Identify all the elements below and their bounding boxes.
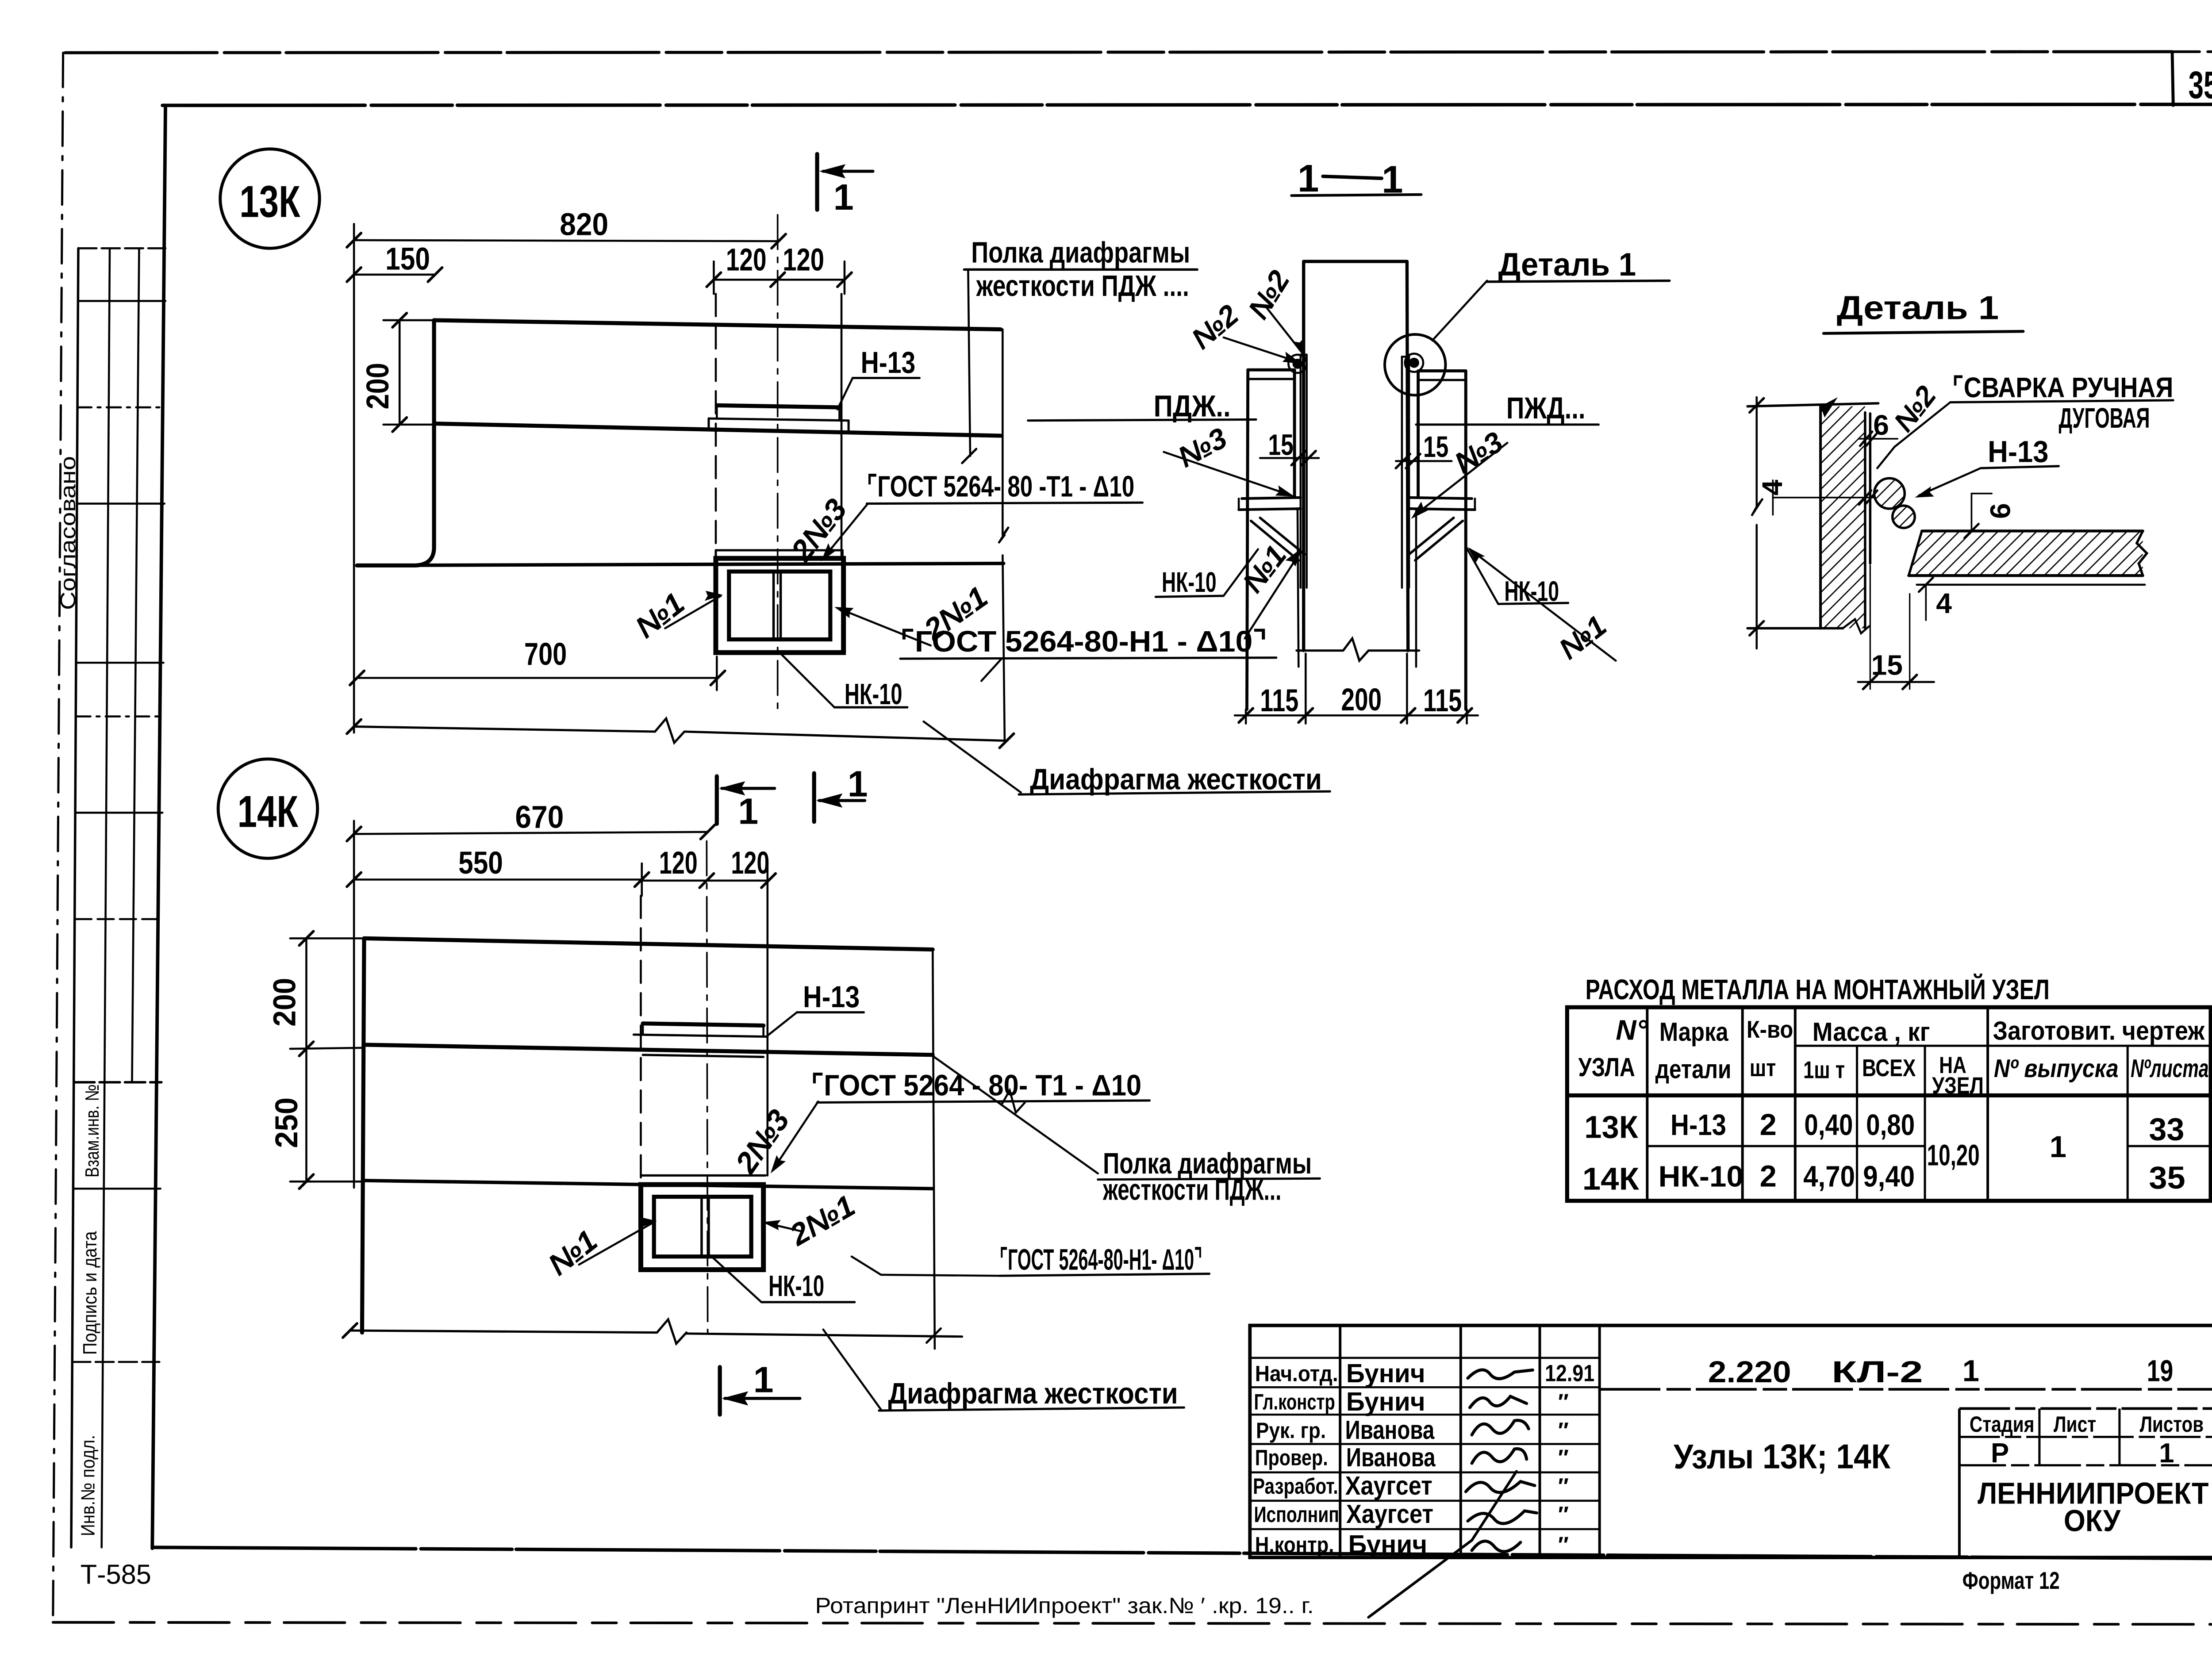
Detail 1 title underline bbox=[1824, 331, 2023, 334]
14K left dimension extension line bbox=[353, 821, 354, 1188]
13K edge line x=830 bbox=[841, 294, 842, 559]
13K balloon circle bbox=[220, 149, 320, 249]
svg-text:700: 700 bbox=[524, 637, 567, 672]
13K bottom section mark A bar bbox=[716, 776, 718, 824]
title block vertical: name col bbox=[1460, 1326, 1462, 1558]
svg-text:15: 15 bbox=[1268, 429, 1294, 462]
svg-text:Иванова: Иванова bbox=[1345, 1415, 1435, 1445]
detail dim 4 left bbox=[1773, 497, 1873, 498]
14K leader 2N3 bbox=[772, 1101, 818, 1170]
13K top beam line bbox=[434, 320, 1001, 330]
svg-text:0,40: 0,40 bbox=[1804, 1109, 1853, 1142]
14K NK-10 underline and leader bbox=[761, 1302, 855, 1303]
inner frame bottom bbox=[152, 1547, 2212, 1558]
svg-text:120: 120 bbox=[731, 846, 769, 881]
svg-text:⌜ГОСТ 5264- 80 -Т1 - Δ10: ⌜ГОСТ 5264- 80 -Т1 - Δ10 bbox=[867, 471, 1134, 503]
13K leader to Diafragma label bbox=[924, 721, 1021, 792]
svg-text:⌜СВАРКА РУЧНАЯ: ⌜СВАРКА РУЧНАЯ bbox=[1952, 372, 2173, 403]
section weld dot right bbox=[1409, 358, 1419, 368]
14K right extension vertical bbox=[933, 950, 935, 1349]
13K dim line 150 bbox=[354, 274, 435, 275]
13K Polka label underline bbox=[964, 269, 1197, 270]
svg-text:шт: шт bbox=[1750, 1054, 1776, 1081]
svg-text:2.220: 2.220 bbox=[1708, 1355, 1791, 1389]
stadia col split 1 bbox=[2039, 1408, 2040, 1465]
13K N-13 underline and leader bbox=[853, 377, 919, 378]
svg-text:35: 35 bbox=[2189, 64, 2212, 107]
svg-text:Nº выпуска: Nº выпуска bbox=[1994, 1055, 2119, 1083]
svg-text:1ш т: 1ш т bbox=[1803, 1056, 1845, 1084]
section dim 15 left bbox=[1260, 457, 1319, 458]
svg-text:15: 15 bbox=[1871, 649, 1903, 681]
svg-text:Хаугсет: Хаугсет bbox=[1346, 1499, 1433, 1529]
svg-text:Формат 12: Формат 12 bbox=[1962, 1567, 2060, 1594]
stamp column vertical line 2 bbox=[102, 248, 110, 1547]
14K bottom section mark arrow bbox=[725, 1398, 800, 1399]
14K balloon circle bbox=[218, 759, 318, 859]
svg-text:1: 1 bbox=[738, 791, 758, 832]
svg-text:13К: 13К bbox=[1584, 1110, 1638, 1145]
svg-text:Деталь 1: Деталь 1 bbox=[1837, 290, 1999, 327]
table outer box bbox=[1567, 1007, 2211, 1201]
svarka underline and leader bbox=[1950, 400, 2173, 403]
section leader N1 left bbox=[1245, 553, 1300, 638]
section dim 15 right bbox=[1396, 460, 1452, 461]
svg-text:9,40: 9,40 bbox=[1863, 1161, 1915, 1193]
section leader N1 right bbox=[1470, 549, 1616, 661]
sheet number box for 35 bbox=[2172, 52, 2173, 105]
svg-text:Р: Р bbox=[1991, 1438, 2009, 1469]
table header bottom line bbox=[1567, 1094, 2211, 1096]
title block row lines (left part) bbox=[1250, 1358, 1599, 1358]
svg-text:УЗЕЛ: УЗЕЛ bbox=[1932, 1073, 1984, 1099]
13K Diafragma underline bbox=[1019, 791, 1330, 794]
14K H-13 bottom strap bbox=[643, 1055, 764, 1057]
svg-text:2: 2 bbox=[1760, 1108, 1777, 1142]
table verticals bbox=[1647, 1007, 1648, 1201]
section wall left edge bbox=[1303, 261, 1304, 651]
svg-text:1: 1 bbox=[1962, 1354, 1979, 1388]
svg-text:Лист: Лист bbox=[2054, 1411, 2096, 1437]
svg-text:КЛ-2: КЛ-2 bbox=[1832, 1355, 1923, 1389]
svg-text:″: ″ bbox=[1558, 1445, 1569, 1470]
PDZh underline / leader shelf bbox=[1028, 419, 1256, 420]
svg-text:Н.контр.: Н.контр. bbox=[1255, 1532, 1334, 1557]
14K dim line 550 bbox=[354, 879, 642, 880]
stamp column left edge bbox=[71, 248, 78, 1547]
svg-text:жесткости ПДЖ ....: жесткости ПДЖ .... bbox=[976, 270, 1189, 303]
svg-text:6: 6 bbox=[1984, 503, 2016, 519]
svg-text:120: 120 bbox=[659, 846, 698, 881]
detail wall hatched band bbox=[1820, 406, 1865, 629]
detail bar bottom thin line bbox=[1917, 584, 2145, 585]
14K N-13 underline and leader bbox=[797, 1012, 864, 1013]
svg-text:Н-13: Н-13 bbox=[803, 980, 860, 1014]
svg-text:ПДЖ..: ПДЖ.. bbox=[1154, 389, 1231, 423]
svg-text:Согласовано: Согласовано bbox=[56, 456, 80, 610]
13K lower panel top line bbox=[357, 564, 1004, 566]
svg-text:НК-10: НК-10 bbox=[768, 1270, 824, 1303]
signature squiggle row6 bbox=[1468, 1511, 1537, 1524]
PZhD underline / leader shelf bbox=[1416, 424, 1598, 425]
detail dim 6 top bbox=[1859, 438, 1897, 439]
svg-text:Исполнип: Исполнип bbox=[1254, 1502, 1339, 1527]
13K vertical dim 200 line bbox=[399, 320, 400, 425]
svg-text:14К: 14К bbox=[238, 787, 299, 836]
14K Polka underline bbox=[1098, 1178, 1320, 1179]
14K dim line 670 bbox=[354, 832, 708, 834]
svg-text:Взам.инв. №: Взам.инв. № bbox=[82, 1084, 103, 1177]
14K hidden edge dashed x=632 bbox=[640, 896, 641, 1177]
13K hidden edge dashed x=706 bbox=[715, 294, 716, 552]
svg-text:Диафрагма жесткости: Диафрагма жесткости bbox=[888, 1377, 1178, 1410]
svg-text:НК-10: НК-10 bbox=[1659, 1161, 1743, 1193]
section right flange plate bbox=[1410, 498, 1472, 499]
svg-text:⌜ГОСТ 5264-80-Н1- Δ10⌝: ⌜ГОСТ 5264-80-Н1- Δ10⌝ bbox=[999, 1244, 1202, 1277]
section N2 plate left bbox=[1300, 355, 1301, 588]
14K Diafragma underline bbox=[879, 1407, 1184, 1411]
svg-text:ДУГОВАЯ: ДУГОВАЯ bbox=[2058, 402, 2150, 434]
svg-text:Бунич: Бунич bbox=[1346, 1387, 1425, 1416]
detail weld blob lower bbox=[1893, 506, 1915, 528]
svg-text:Листов: Листов bbox=[2140, 1411, 2204, 1437]
section right panel top edges bbox=[1418, 370, 1466, 372]
svg-text:Полка диафрагмы: Полка диафрагмы bbox=[971, 236, 1190, 269]
svg-text:Провер.: Провер. bbox=[1255, 1445, 1328, 1470]
signature squiggle row7 bbox=[1472, 1541, 1521, 1552]
svg-text:200: 200 bbox=[1341, 683, 1382, 717]
signature squiggle row5 bbox=[1466, 1481, 1535, 1492]
svg-text:14К: 14К bbox=[1582, 1162, 1640, 1197]
13K bottom section mark B bar bbox=[813, 773, 815, 822]
14K leader to Diafragma label bbox=[823, 1330, 881, 1410]
svg-text:Ротапринт "ЛенНИИпроект" зак.№: Ротапринт "ЛенНИИпроект" зак.№ ′ .кр. 19… bbox=[815, 1593, 1314, 1618]
title block line under doc number bbox=[1600, 1389, 2212, 1390]
stamp column separator rows bbox=[78, 248, 165, 249]
svg-text:1: 1 bbox=[833, 177, 854, 218]
section mark 1 bar (top of 13K) bbox=[816, 154, 818, 210]
13K leader N1 bbox=[665, 596, 721, 628]
Detail 1 label underline bbox=[1487, 281, 1669, 282]
svg-text:Иванова: Иванова bbox=[1346, 1442, 1436, 1472]
13K H-13 lower plate bbox=[709, 418, 849, 421]
detail dim 15 bottom bbox=[1870, 565, 1870, 689]
svg-text:Узлы 13К; 14К: Узлы 13К; 14К bbox=[1674, 1437, 1891, 1476]
svg-text:150: 150 bbox=[385, 242, 430, 276]
svg-text:Бунич: Бунич bbox=[1348, 1530, 1428, 1559]
14K H-13 top plate bbox=[643, 1024, 764, 1026]
svg-text:Стадия: Стадия bbox=[1970, 1411, 2035, 1437]
14K leader to Polka label with break bbox=[933, 1056, 1098, 1173]
svg-text:НК-10: НК-10 bbox=[1162, 566, 1217, 598]
14K panel bottom line bbox=[364, 1181, 933, 1189]
14K left thick vertical bbox=[362, 938, 364, 1332]
14K NK-10 channel top plate bbox=[641, 1175, 765, 1176]
13K bottom section mark B arrow bbox=[819, 800, 865, 801]
long diagonal pen stroke across signatures bbox=[1368, 1540, 1472, 1617]
svg-text:35: 35 bbox=[2149, 1161, 2185, 1196]
inner frame top (dashed look) bbox=[162, 104, 2212, 105]
13K NK-10 channel outer box bbox=[716, 558, 844, 652]
14K centre axis (dash-dot) bbox=[707, 841, 707, 1333]
13K NK-10 channel inner box bbox=[729, 571, 830, 639]
leader to Detail 1 label bbox=[1432, 281, 1487, 341]
svg-text:детали: детали bbox=[1655, 1055, 1732, 1084]
svg-text:13К: 13К bbox=[239, 177, 300, 226]
svg-text:″: ″ bbox=[1558, 1473, 1569, 1499]
14K NK-10 channel outer box bbox=[641, 1185, 763, 1269]
svg-text:Масса , кг: Масса , кг bbox=[1813, 1017, 1930, 1047]
svg-text:10,20: 10,20 bbox=[1927, 1139, 1980, 1172]
section wall bottom break line bbox=[1297, 650, 1343, 651]
svg-text:115: 115 bbox=[1260, 683, 1298, 718]
svg-text:″: ″ bbox=[1558, 1502, 1569, 1527]
13K bottom section mark A arrow bbox=[722, 788, 775, 789]
stadia values underline bbox=[1959, 1465, 2212, 1466]
svg-text:0,80: 0,80 bbox=[1866, 1109, 1915, 1142]
svg-text:РАСХОД МЕТАЛЛА НА МОНТАЖНЫЙ: РАСХОД МЕТАЛЛА НА МОНТАЖНЫЙ УЗЕЛ bbox=[1586, 973, 2050, 1005]
14K bottom section mark bar bbox=[719, 1367, 721, 1415]
13K second beam line bbox=[434, 424, 1001, 436]
14K H-13 mid plate bbox=[634, 1035, 767, 1037]
table header split line (Massa/Zagotovit) bbox=[1795, 1045, 2211, 1046]
title block vertical: label col bbox=[1340, 1326, 1341, 1558]
detail circle on section bbox=[1385, 334, 1445, 395]
14K leader N1 bbox=[579, 1222, 654, 1265]
13K dim line 700 bbox=[357, 678, 718, 679]
svg-text:1: 1 bbox=[2159, 1438, 2174, 1469]
section left brace diagonals bbox=[1251, 521, 1299, 560]
section title dash bbox=[1323, 176, 1382, 179]
section left panel inner edge bbox=[1294, 370, 1295, 496]
section left panel outer edge bbox=[1247, 370, 1248, 709]
13K dim line 120+120 bbox=[714, 279, 845, 280]
13K NK-10 underline and leader bbox=[834, 707, 907, 708]
14K top beam line bbox=[364, 938, 933, 949]
detail wall top edge bbox=[1747, 403, 1878, 406]
detail dim 4 bottom bbox=[1925, 585, 1926, 620]
signature squiggle row3 bbox=[1472, 1420, 1528, 1435]
svg-text:″: ″ bbox=[1558, 1532, 1569, 1557]
13K left dimension extension line bbox=[353, 224, 354, 732]
section wall top edge bbox=[1304, 261, 1407, 262]
svg-text:1: 1 bbox=[2050, 1130, 2066, 1164]
14K GOST N1 underline bbox=[999, 1274, 1209, 1276]
13K centre axis (dash-dot) bbox=[777, 215, 778, 709]
13K Polka extension vertical bbox=[968, 271, 970, 456]
outer page border top (dashed) bbox=[65, 52, 2172, 53]
svg-text:4: 4 bbox=[1756, 479, 1788, 495]
svg-text:12.91: 12.91 bbox=[1545, 1361, 1594, 1387]
detail dim 6 right bbox=[1971, 494, 1972, 531]
stadia box left bbox=[1959, 1408, 1960, 1557]
13K panel left vertical with corner curve bbox=[357, 320, 434, 565]
svg-text:33: 33 bbox=[2149, 1112, 2184, 1147]
svg-text:Гл.констр: Гл.констр bbox=[1254, 1389, 1335, 1415]
13K leader 2N3 bbox=[823, 504, 868, 559]
14K second beam line bbox=[364, 1045, 933, 1055]
section left panel top edges bbox=[1248, 369, 1294, 371]
svg-text:Инв.№ подл.: Инв.№ подл. bbox=[78, 1435, 99, 1536]
13K right extension vertical with break bbox=[1002, 330, 1003, 535]
14K edge line x=757 bbox=[767, 896, 768, 1175]
title block vertical: date col / main divider bbox=[1599, 1326, 1600, 1558]
svg-text:200: 200 bbox=[267, 978, 302, 1027]
section wall right edge bbox=[1407, 261, 1408, 651]
svg-text:6: 6 bbox=[1873, 409, 1889, 441]
svg-text:Н-13: Н-13 bbox=[1671, 1109, 1726, 1142]
outer page border left (dash-dot) bbox=[53, 53, 63, 1621]
svg-text:Марка: Марка bbox=[1659, 1017, 1729, 1047]
section right panel inner edge bbox=[1417, 371, 1419, 496]
svg-text:N°: N° bbox=[1616, 1014, 1647, 1046]
svg-text:1: 1 bbox=[848, 764, 868, 805]
13K leader 2N1 bbox=[837, 608, 931, 646]
14K NK-10 channel divider bbox=[701, 1197, 702, 1257]
svg-text:ОКУ: ОКУ bbox=[2064, 1504, 2121, 1538]
svg-text:120: 120 bbox=[726, 243, 767, 278]
section right brace diagonals bbox=[1415, 521, 1463, 560]
svg-text:1: 1 bbox=[1298, 157, 1319, 200]
svg-text:Nºлиста: Nºлиста bbox=[2131, 1055, 2208, 1083]
13K NK-10 channel divider bbox=[773, 571, 774, 639]
svg-text:Деталь 1: Деталь 1 bbox=[1498, 246, 1636, 283]
svg-text:4: 4 bbox=[1936, 587, 1952, 619]
svg-text:Заготовит. чертеж: Заготовит. чертеж bbox=[1993, 1016, 2205, 1045]
svg-text:Рук. гр.: Рук. гр. bbox=[1256, 1418, 1326, 1443]
section left flange plate bbox=[1242, 498, 1301, 499]
signature squiggle row1 bbox=[1468, 1370, 1533, 1379]
svg-text:Н-13: Н-13 bbox=[1988, 435, 2048, 469]
section leader N3 left bbox=[1164, 452, 1292, 496]
svg-text:Бунич: Бунич bbox=[1346, 1358, 1425, 1388]
svg-text:550: 550 bbox=[458, 846, 503, 881]
svg-text:Хаугсет: Хаугсет bbox=[1345, 1471, 1432, 1500]
NK-10 right underline and leader bbox=[1498, 603, 1568, 604]
13K GOST T1 underline bbox=[867, 502, 1142, 503]
svg-text:Т-585: Т-585 bbox=[81, 1560, 151, 1590]
13K GOST N1 underline bbox=[900, 658, 1276, 659]
svg-text:2: 2 bbox=[1760, 1159, 1777, 1193]
14K long bottom line with break bbox=[350, 1331, 657, 1333]
detail H-13 bar hatched band bbox=[1909, 531, 2143, 575]
svg-text:″: ″ bbox=[1558, 1389, 1569, 1415]
svg-text:820: 820 bbox=[560, 207, 608, 242]
svg-text:200: 200 bbox=[361, 363, 396, 409]
section title underline bbox=[1291, 195, 1421, 196]
section weld dot left bbox=[1293, 359, 1303, 369]
section N2 plate right bbox=[1402, 357, 1402, 587]
title block vertical: signature col bbox=[1539, 1326, 1540, 1558]
svg-text:19: 19 bbox=[2147, 1354, 2174, 1388]
svg-text:⌜ГОСТ 5264-80-Н1 - Δ10⌝: ⌜ГОСТ 5264-80-Н1 - Δ10⌝ bbox=[900, 625, 1267, 658]
section bottom dim line 115/200/115 bbox=[1235, 715, 1478, 716]
svg-text:4,70: 4,70 bbox=[1803, 1161, 1855, 1193]
svg-text:К-во: К-во bbox=[1747, 1016, 1793, 1043]
svg-text:Н-13: Н-13 bbox=[861, 345, 916, 380]
svg-text:ВСЕХ: ВСЕХ bbox=[1862, 1054, 1916, 1081]
detail N-13 underline and leader bbox=[1981, 466, 2058, 468]
14K leader 2N1 bbox=[767, 1223, 801, 1231]
svg-text:″: ″ bbox=[1558, 1418, 1569, 1443]
svg-text:УЗЛА: УЗЛА bbox=[1578, 1052, 1635, 1082]
svg-text:120: 120 bbox=[783, 243, 824, 278]
detail N2 top sliver bbox=[1820, 397, 1838, 418]
14K GOST T1 underline bbox=[817, 1101, 1149, 1103]
svg-text:115: 115 bbox=[1423, 683, 1462, 718]
section mark 1 arrow (top of 13K) bbox=[823, 171, 873, 172]
NK-10 left underline and leader bbox=[1156, 596, 1223, 597]
13K NK-10 channel top plate bbox=[716, 550, 842, 551]
stamp column vertical line 3 bbox=[132, 248, 139, 1082]
svg-text:Разработ.: Разработ. bbox=[1253, 1473, 1338, 1499]
svg-text:1: 1 bbox=[753, 1360, 774, 1400]
svg-text:ПЖД...: ПЖД... bbox=[1506, 391, 1586, 425]
13K long bottom line with break bbox=[354, 727, 655, 732]
signature squiggle row2 bbox=[1470, 1396, 1526, 1407]
table row separator bbox=[1647, 1146, 1925, 1147]
detail N2 plate strip bbox=[1870, 414, 1870, 564]
section bottom extension lines bbox=[1245, 709, 1246, 724]
detail weld blob upper bbox=[1874, 478, 1905, 509]
inner frame left bbox=[152, 105, 165, 1548]
stadia box top bbox=[1959, 1408, 2212, 1409]
section leader N3 right bbox=[1414, 443, 1507, 516]
stadia col split 2 bbox=[2119, 1408, 2120, 1465]
13K dim line 820 bbox=[354, 240, 779, 241]
signature squiggle row4 bbox=[1472, 1449, 1527, 1463]
svg-text:Подпись и дата: Подпись и дата bbox=[80, 1231, 101, 1355]
section leader N2 outer bbox=[1224, 337, 1298, 362]
section leader N2 inner bbox=[1266, 307, 1304, 355]
14K vertical dim line 200/250 bbox=[306, 938, 307, 1181]
svg-text:Нач.отд.: Нач.отд. bbox=[1255, 1361, 1338, 1386]
14K NK-10 channel inner box bbox=[654, 1197, 751, 1257]
section right panel outer edge bbox=[1465, 371, 1467, 709]
detail wall bottom edge bbox=[1747, 628, 1843, 629]
svg-text:670: 670 bbox=[515, 800, 564, 835]
svg-text:250: 250 bbox=[269, 1097, 304, 1148]
detail left dim extension line with break bbox=[1756, 397, 1757, 506]
13K H-13 top plate bbox=[717, 405, 839, 407]
stadia header underline bbox=[1959, 1436, 2212, 1437]
14K dim line 120+120 bbox=[642, 880, 768, 881]
outer page border bottom (dashed) bbox=[53, 1622, 2212, 1625]
svg-text:15: 15 bbox=[1423, 431, 1448, 464]
title block outer box bbox=[1250, 1326, 2212, 1558]
svg-text:НК-10: НК-10 bbox=[845, 678, 902, 711]
